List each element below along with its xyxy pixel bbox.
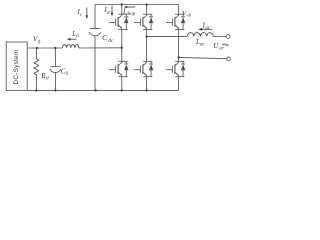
- node C0 top junction: [54, 47, 56, 49]
- svg-text:d: d: [107, 11, 110, 16]
- resistor R0: [34, 48, 39, 90]
- IGBT Q2 bottom (chopper): [109, 61, 129, 76]
- wire: Q4 emitter to bottom rail: [146, 77, 148, 91]
- node bottom rail leg1: [121, 89, 123, 91]
- node leg3 output junction: [178, 56, 180, 58]
- node bottom rail R0: [35, 89, 37, 91]
- ac source squiggle: [223, 44, 229, 45]
- arrow Ichop current: [127, 6, 136, 8]
- wire: Q5 emitter down through leg3: [178, 30, 180, 62]
- svg-text:DC-System: DC-System: [13, 50, 20, 85]
- IGBT Q4 bottom (leg2): [134, 61, 154, 76]
- IGBT Q3 top (leg2): [134, 14, 154, 29]
- svg-text:0: 0: [38, 40, 41, 45]
- svg-text:C: C: [102, 34, 107, 42]
- wire: main dc line from box to chopper midpoint: [27, 47, 122, 49]
- node leg2 midpoint junction: [146, 36, 148, 38]
- wire: leg2 midpoint down to Q4: [146, 37, 148, 62]
- wire: leg1 midpoint to Q2: [121, 48, 123, 62]
- svg-text:chop: chop: [126, 12, 136, 17]
- svg-text:oll: oll: [186, 13, 192, 18]
- wire: Q5 collector lead: [178, 5, 180, 15]
- svg-text:dc: dc: [108, 38, 114, 44]
- arrow L0 current: [70, 38, 77, 40]
- svg-text:0: 0: [46, 76, 49, 81]
- svg-text:0: 0: [66, 72, 69, 77]
- inductor L0: [63, 45, 79, 48]
- inductor Lac: [187, 33, 226, 37]
- IGBT Q1 top (chopper): [109, 14, 129, 29]
- node V0 junction: [36, 47, 38, 49]
- node bottom rail Cdc: [95, 89, 97, 91]
- svg-text:ac: ac: [205, 26, 211, 31]
- node leg1 midpoint junction: [121, 47, 123, 49]
- svg-text:ac: ac: [219, 47, 225, 52]
- capacitor C0: [50, 48, 61, 90]
- arrow Id current: [111, 6, 113, 14]
- wire: Q1 collector lead: [121, 5, 123, 15]
- node bottom rail C0: [54, 89, 56, 91]
- node top rail leg1: [121, 3, 123, 5]
- wire: Q3 collector lead: [146, 5, 148, 15]
- arrow Iac current: [202, 28, 213, 30]
- terminal circle bottom: [227, 57, 231, 61]
- arrow Ic current: [86, 8, 88, 16]
- wire: Q1 emitter to midpoint: [121, 30, 123, 48]
- wire: Q3 emitter to leg2 midpoint: [146, 30, 148, 37]
- svg-text:0: 0: [76, 35, 79, 40]
- svg-text:c: c: [80, 13, 83, 18]
- node top rail leg2: [146, 3, 148, 5]
- node bottom rail leg2: [146, 89, 148, 91]
- capacitor Cdc: [89, 5, 100, 91]
- wire: Q2 emitter to bottom rail: [121, 77, 123, 91]
- IGBT Q6 bottom (leg3): [166, 61, 186, 76]
- wire: Q6 emitter to bottom rail: [178, 77, 180, 91]
- wire: leg3 midpoint to bottom terminal: [179, 57, 227, 58]
- wire: top rail: [95, 4, 179, 6]
- svg-text:ac: ac: [200, 42, 206, 47]
- IGBT Q5 top (leg3): [166, 14, 186, 29]
- wire: bottom rail: [27, 89, 178, 91]
- DC-System box: [6, 42, 27, 90]
- terminal circle top: [226, 35, 230, 39]
- wire: leg2 midpoint to Lac: [147, 35, 188, 37]
